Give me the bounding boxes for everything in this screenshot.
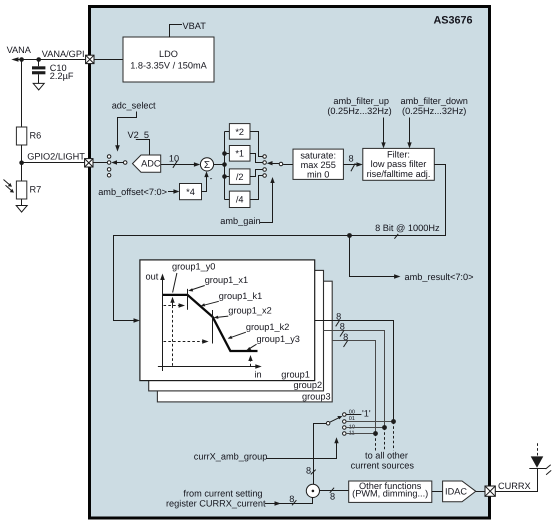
svg-text:1.8-3.35V / 150mA: 1.8-3.35V / 150mA	[130, 60, 207, 70]
svg-text:rise/falltime adj.: rise/falltime adj.	[367, 169, 431, 179]
svg-text:saturate:: saturate:	[300, 151, 336, 161]
svg-text:ADC: ADC	[141, 159, 161, 169]
svg-text:from current setting: from current setting	[183, 488, 262, 498]
svg-text:/4: /4	[236, 195, 244, 205]
svg-text:group1_x1: group1_x1	[205, 275, 248, 285]
svg-text:8: 8	[343, 332, 348, 342]
svg-text:group1_k1: group1_k1	[219, 291, 262, 301]
svg-text:group3: group3	[302, 391, 331, 401]
svg-text:group2: group2	[293, 380, 322, 390]
svg-text:group1_k2: group1_k2	[246, 322, 289, 332]
svg-text:/2: /2	[236, 172, 244, 182]
svg-text:low pass filter: low pass filter	[371, 159, 427, 169]
svg-text:GPIO2/LIGHT: GPIO2/LIGHT	[27, 152, 85, 162]
svg-text:*2: *2	[235, 127, 244, 137]
svg-text:*4: *4	[186, 187, 195, 197]
svg-text:CURRX: CURRX	[498, 481, 531, 491]
svg-text:group1_y3: group1_y3	[257, 334, 300, 344]
svg-text:8 Bit @ 1000Hz: 8 Bit @ 1000Hz	[375, 223, 440, 233]
svg-text:amb_offset<7:0>: amb_offset<7:0>	[98, 187, 167, 197]
svg-text:group1: group1	[281, 370, 310, 380]
svg-text:max 255: max 255	[301, 160, 336, 170]
svg-text:*1: *1	[235, 149, 244, 159]
svg-text:out: out	[146, 272, 159, 282]
svg-text:V2_5: V2_5	[128, 130, 149, 140]
svg-text:8: 8	[330, 491, 335, 501]
svg-text:LDO: LDO	[159, 49, 178, 59]
svg-text:R7: R7	[30, 185, 42, 195]
svg-text:(0.25Hz...32Hz): (0.25Hz...32Hz)	[402, 106, 466, 116]
svg-text:VBAT: VBAT	[183, 21, 207, 31]
svg-text:VANA: VANA	[7, 45, 32, 55]
svg-text:IDAC: IDAC	[445, 486, 467, 496]
svg-text:currX_amb_group: currX_amb_group	[194, 452, 268, 462]
svg-text:amb_filter_up: amb_filter_up	[333, 96, 389, 106]
svg-text:8: 8	[306, 465, 311, 475]
svg-text:VANA/GPI: VANA/GPI	[42, 49, 85, 59]
svg-text:amb_gain: amb_gain	[220, 216, 260, 226]
svg-text:AS3676: AS3676	[434, 15, 473, 27]
svg-text:amb_result<7:0>: amb_result<7:0>	[405, 272, 474, 282]
svg-text:'1': '1'	[362, 408, 371, 418]
svg-text:adc_select: adc_select	[112, 101, 156, 111]
svg-text:to all other: to all other	[365, 451, 408, 461]
svg-text:Σ: Σ	[204, 160, 210, 171]
svg-text:2.2µF: 2.2µF	[50, 71, 74, 81]
svg-text:8: 8	[348, 153, 353, 163]
svg-text:8: 8	[289, 494, 294, 504]
svg-text:min 0: min 0	[307, 170, 329, 180]
svg-text:-: -	[210, 173, 213, 183]
svg-text:(0.25Hz...32Hz): (0.25Hz...32Hz)	[327, 106, 391, 116]
svg-text:R6: R6	[30, 131, 42, 141]
svg-text:8: 8	[336, 311, 341, 321]
svg-text:register CURRX_current: register CURRX_current	[166, 499, 266, 509]
svg-text:group1_y0: group1_y0	[172, 261, 215, 271]
svg-text:10: 10	[169, 153, 179, 163]
svg-text:in: in	[255, 369, 262, 379]
svg-text:group1_x2: group1_x2	[228, 306, 271, 316]
svg-text:amb_filter_down: amb_filter_down	[400, 96, 467, 106]
svg-text:(PWM, dimming...): (PWM, dimming...)	[352, 488, 428, 498]
svg-text:current sources: current sources	[351, 461, 415, 471]
